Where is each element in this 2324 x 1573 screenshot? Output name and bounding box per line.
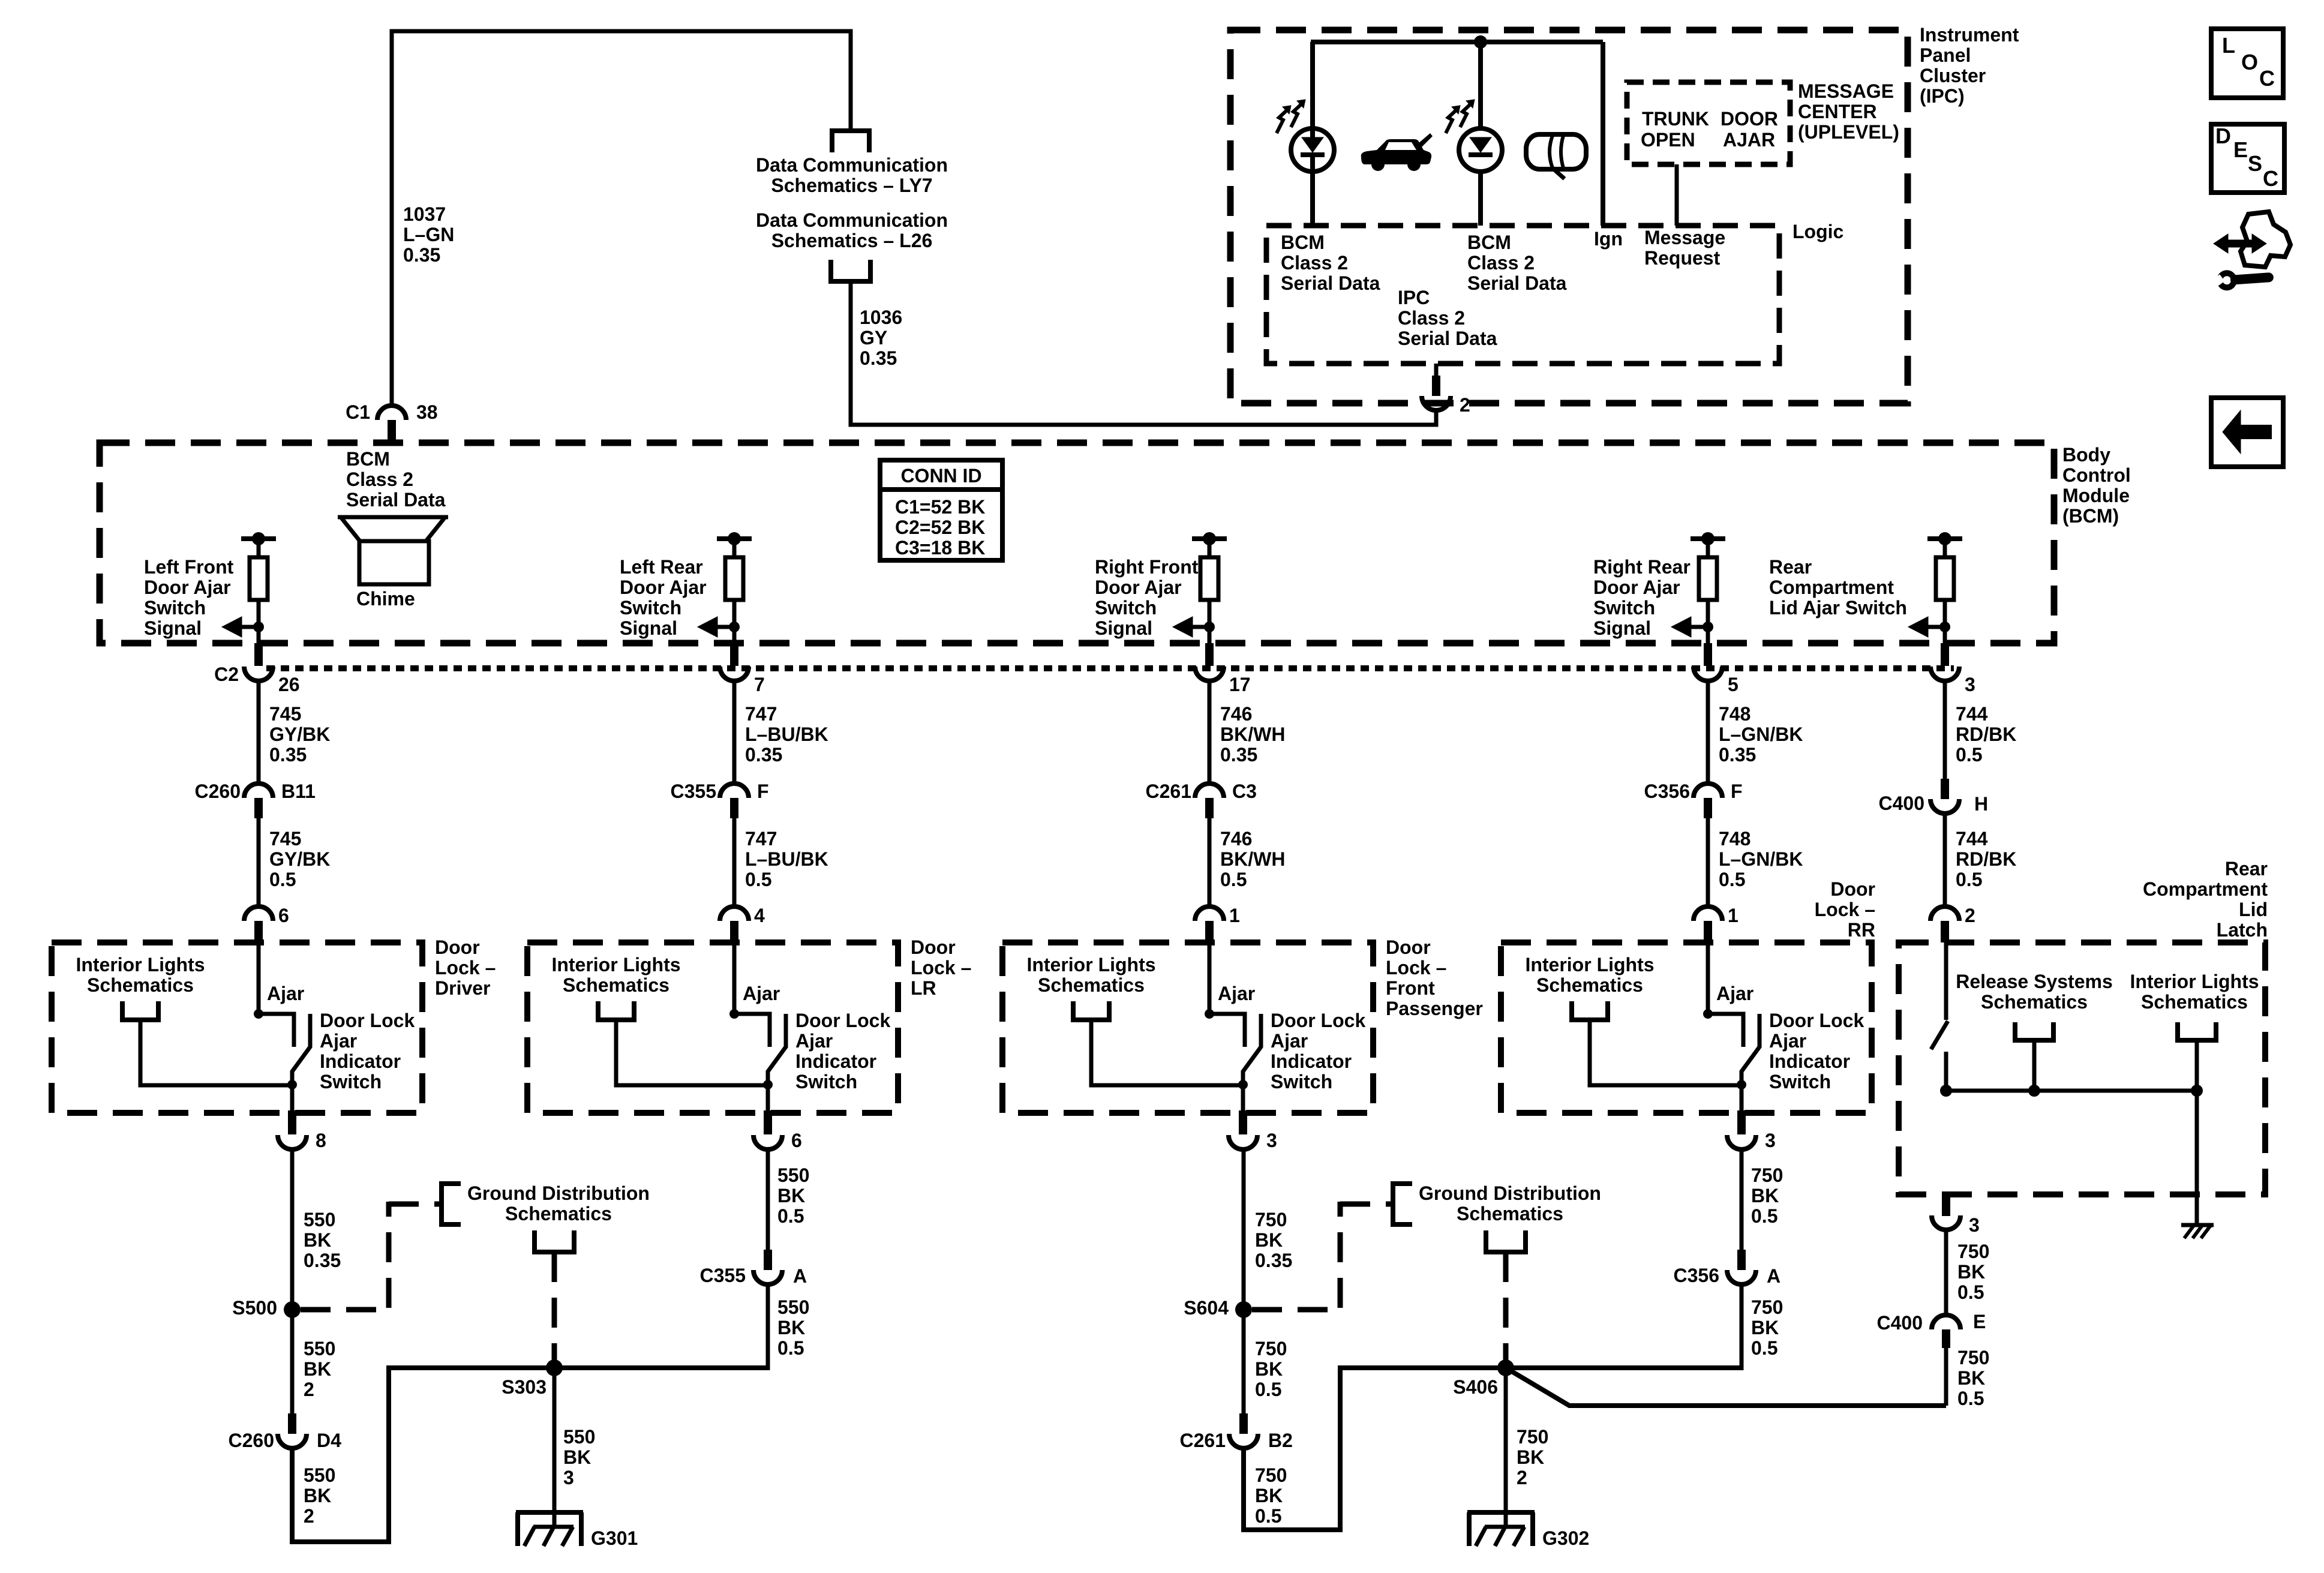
ground G302 symbol [1467, 1510, 1535, 1515]
connector terminal C2 pin 7 [730, 643, 738, 666]
LED indicator 2 (door ajar telltale) [1459, 128, 1502, 172]
label pin B2 [1268, 1430, 1293, 1451]
wire switch output [290, 1085, 295, 1113]
rear compartment lid latch dashed box [1899, 942, 2265, 1194]
label TRUNK OPEN [1642, 109, 1709, 129]
label pin 6 [278, 905, 289, 926]
label Interior Lights Schematics [551, 954, 680, 995]
wire switch output [1241, 1085, 1245, 1113]
switch pivot node [1238, 1080, 1248, 1089]
dashed wire to splice S406 [1503, 1252, 1509, 1363]
icon double-headed arrow [2223, 240, 2257, 248]
connector terminal pin 3 (latch) [1942, 1194, 1950, 1216]
wire interior lights branch [140, 1020, 292, 1085]
node Ajar [729, 1009, 739, 1019]
wire switch input [257, 942, 261, 1014]
label wire 748 L–GN/BK 0.35 [1719, 704, 1803, 765]
label Data Communication Schematics - LY7 [756, 155, 948, 196]
wire 750 BK from front passenger door lock [1242, 1148, 1246, 1413]
label pin 1 [1229, 905, 1240, 926]
label pin 8 [316, 1130, 326, 1151]
signal arrow [1928, 625, 1945, 629]
in-line connector C356 pin A [1737, 1250, 1746, 1270]
LED 2 emission arrow b [1460, 103, 1472, 127]
IPC Logic dashed box [1266, 226, 1779, 364]
switch fixed contact (Ajar) [734, 1014, 770, 1047]
latch internal bus wire [1946, 1089, 2197, 1093]
icon car with open trunk (filled) [1361, 133, 1433, 171]
wire 746 BK/WH segment (BCM side) [1208, 681, 1212, 784]
resistor (door ajar sense) [725, 557, 743, 600]
in-line connector C355 pin A [764, 1250, 772, 1270]
off-page bracket to Interior Lights Schematics (latch) [2178, 1022, 2216, 1040]
label G301 [591, 1528, 638, 1548]
node Ajar [1205, 1009, 1214, 1019]
label Body Control Module (BCM) [2062, 445, 2131, 526]
label pin 2 [1965, 905, 1975, 926]
door lock module dashed box (Passenger) [1002, 942, 1373, 1113]
connector terminal C2 pin 17 [1205, 643, 1214, 666]
node Ajar [254, 1009, 263, 1019]
label C260 [195, 781, 241, 801]
connector terminal C2 pin 3 [1941, 643, 1949, 666]
dashed wire S500 to ground distribution reference [301, 1307, 391, 1313]
label C260 (D4) [229, 1430, 275, 1451]
label Chime [356, 589, 415, 609]
wire S303 to ground G301 [553, 1368, 557, 1527]
switch pivot node [763, 1080, 773, 1089]
door lock ajar indicator switch blade [1243, 1014, 1261, 1085]
wire C400 E down to S406 branch [1944, 1348, 1948, 1406]
signal tap junction [1939, 622, 1950, 632]
connector terminal pin 6 at component [244, 906, 273, 921]
label wire 744 RD/BK 0.5 [1956, 704, 2016, 765]
label Door Lock – LR [911, 937, 971, 998]
off-page bracket to Interior Lights Schematics [122, 1001, 158, 1020]
IPC internal wire to LED 1 [1310, 42, 1315, 226]
label Right Rear Door Ajar Switch Signal [1593, 557, 1691, 638]
wire 747 L–BU/BK segment (switch side) [732, 818, 737, 906]
label wire 550 BK 0.5 (upper) [777, 1165, 809, 1226]
wire node to sensing resistor [257, 539, 261, 557]
label wire 550 BK 0.5 (lower) [777, 1297, 809, 1358]
label C400 (E) [1877, 1313, 1923, 1333]
label Interior Lights Schematics [76, 954, 205, 995]
label MESSAGE CENTER (UPLEVEL) [1798, 81, 1899, 142]
BCM branch node at x=2016 [1192, 536, 1227, 541]
icon box DESC [2211, 124, 2284, 193]
switch pivot node [287, 1080, 297, 1089]
connector terminal pin 8 [288, 1110, 296, 1134]
label Left Rear Door Ajar Switch Signal [620, 557, 707, 638]
label wire 747 L–BU/BK 0.5 [745, 828, 828, 890]
signal tap junction [1703, 622, 1713, 632]
label pin 6 [791, 1130, 802, 1151]
wire 744 RD/BK segment (BCM side) [1943, 681, 1947, 779]
splice S500 [284, 1301, 301, 1318]
node Ajar [1703, 1009, 1713, 1019]
connector terminal pin 3 [1737, 1110, 1746, 1134]
BCM branch node at x=431 [241, 536, 276, 541]
label Ajar [1716, 983, 1753, 1004]
label S604 [1184, 1298, 1229, 1318]
wire switch output [766, 1085, 770, 1113]
label wire 746 BK/WH 0.5 [1220, 828, 1285, 890]
label Interior Lights Schematics [1026, 954, 1155, 995]
node latch ground branch [2191, 1085, 2203, 1097]
wire resistor to signal tap [732, 600, 737, 643]
label Interior Lights Schematics [1525, 954, 1654, 995]
off-page reference bracket (bottom) from Data Communication Schematics [831, 260, 870, 281]
off-page bracket to Interior Lights Schematics [598, 1001, 634, 1020]
signal arrow [1193, 625, 1209, 629]
label wire 744 RD/BK 0.5 [1956, 828, 2016, 890]
wire node to sensing resistor [1208, 539, 1212, 557]
label wire 750 BK 0.5 (latch lower) [1957, 1347, 1989, 1409]
label wire 750 BK 0.5 (upper RR) [1751, 1165, 1783, 1226]
label wire 550 BK 3 [563, 1427, 595, 1488]
MESSAGE CENTER dashed box [1627, 82, 1790, 164]
label Ajar [267, 983, 304, 1004]
label Right Front Door Ajar Switch Signal [1095, 557, 1198, 638]
label Door Lock Ajar Indicator Switch [320, 1010, 415, 1092]
label pin E [1973, 1311, 1986, 1332]
door lock module dashed box (LR) [527, 942, 898, 1113]
chassis ground (latch) [2181, 1223, 2214, 1227]
signal tap junction [1204, 622, 1215, 632]
connector terminal C2 pin 26 [254, 643, 263, 666]
wire resistor to signal tap [257, 600, 261, 643]
in-line connector C261 pin B2 [1239, 1413, 1248, 1434]
label S500 [232, 1298, 277, 1318]
wire resistor to signal tap [1208, 600, 1212, 643]
wire switch input [1208, 942, 1212, 1014]
label Data Communication Schematics - L26 [756, 210, 948, 251]
label C2 [214, 664, 239, 685]
off-page bracket ground distribution (right) [1393, 1184, 1412, 1224]
resistor (door ajar sense) [1936, 557, 1954, 600]
door lock module dashed box (RR) [1501, 942, 1872, 1113]
label CONN ID [900, 466, 981, 486]
in-line connector C261 pin C3 [1195, 784, 1224, 798]
connector terminal pin 6 [764, 1110, 772, 1134]
off-page reference bracket (top) to Data Communication Schematics [832, 131, 869, 152]
door lock ajar indicator switch blade [1742, 1014, 1759, 1085]
label pin 7 [754, 674, 765, 695]
wire net 1036 from off-page bracket to IPC pin 2 [851, 281, 1436, 425]
label wire 750 BK 0.5 (lower) [1255, 1465, 1287, 1526]
icon car top view with door open (outline) [1526, 134, 1586, 179]
wire 746 BK/WH segment (switch side) [1208, 818, 1212, 906]
off-page bracket ground distribution (left) [442, 1184, 461, 1224]
label wire 1037 L-GN 0.35 [403, 204, 454, 265]
wire node to sensing resistor [1706, 539, 1710, 557]
label wire 746 BK/WH 0.35 [1220, 704, 1285, 765]
wire S406 to ground G302 [1504, 1368, 1508, 1527]
label Instrument Panel Cluster (IPC) [1920, 25, 2019, 106]
connector terminal C2 pin 5 [1704, 643, 1712, 666]
label pin A [793, 1266, 807, 1286]
LED 1 emission arrow a [1277, 109, 1288, 133]
door lock ajar indicator switch blade [768, 1014, 786, 1085]
signal arrow [717, 625, 734, 629]
label wire 745 GY/BK 0.35 [269, 704, 330, 765]
label pin 17 [1229, 674, 1251, 695]
label Message Request [1644, 227, 1725, 268]
ground G301 symbol [516, 1510, 583, 1515]
in-line connector C355 pin F [720, 784, 749, 798]
connector terminal pin 1 at component [1195, 906, 1224, 921]
label S406 [1453, 1377, 1498, 1397]
wire resistor to signal tap [1706, 600, 1710, 643]
label wire 1036 GY 0.35 [860, 307, 902, 368]
switch fixed contact (Ajar) [1209, 1014, 1245, 1047]
BCM branch node at x=3242 [1927, 536, 1962, 541]
label pin 1 [1728, 905, 1739, 926]
icon box back-arrow [2211, 398, 2283, 467]
label C356 [1644, 781, 1691, 801]
label Door Lock Ajar Indicator Switch [1271, 1010, 1365, 1092]
label pin 5 [1728, 674, 1739, 695]
BCM branch node at x=2847 [1691, 536, 1725, 541]
IPC module dashed box [1230, 30, 1908, 403]
label pin 3 [1965, 674, 1975, 695]
label Ign [1594, 229, 1623, 249]
wire 750 BK from latch pin 3 [1944, 1229, 1948, 1315]
label 38 [416, 402, 438, 422]
dotted connector line C2/C3 under BCM [266, 665, 1954, 671]
label Ground Distribution Schematics (right) [1419, 1183, 1601, 1224]
wire node to sensing resistor [732, 539, 737, 557]
switch fixed contact (Ajar) [259, 1014, 294, 1047]
label IPC Class 2 Serial Data [1398, 287, 1497, 349]
label pin C3 [1232, 781, 1257, 801]
label BCM Class 2 Serial Data (chime) [346, 449, 445, 510]
LED indicator 1 (trunk open telltale) [1291, 128, 1334, 172]
splice S303 [546, 1359, 563, 1376]
label pin F [1731, 781, 1743, 801]
wire 745 GY/BK segment (BCM side) [257, 681, 261, 784]
wire interior lights branch [1590, 1020, 1742, 1085]
off-page bracket to Release Systems Schematics [2015, 1022, 2053, 1040]
wire C355 A to S303 bus [766, 1284, 770, 1370]
junction node on IPC bus [1474, 35, 1487, 49]
IPC internal top bus wire [1311, 40, 1603, 44]
splice S406 [1497, 1359, 1514, 1376]
label Release Systems Schematics [1956, 971, 2113, 1012]
label wire 750 BK 0.5 (upper) [1255, 1338, 1287, 1400]
label Door Lock Ajar Indicator Switch [1769, 1010, 1864, 1092]
in-line connector C260 pin D4 [288, 1413, 296, 1434]
label pin A (C356) [1767, 1266, 1780, 1286]
label Left Front Door Ajar Switch Signal [144, 557, 233, 638]
in-line connector C260 pin B11 [244, 784, 273, 798]
label pin B11 [281, 781, 316, 801]
label Door Lock Ajar Indicator Switch [795, 1010, 890, 1092]
label C355 [671, 781, 717, 801]
signal tap junction [253, 622, 264, 632]
label Rear Compartment Lid Latch [2143, 858, 2268, 940]
dashed wire to splice S303 [552, 1252, 557, 1363]
icon diagnostic side view with double arrow [2241, 212, 2290, 267]
wire 745 GY/BK segment (switch side) [257, 818, 261, 906]
label wire 550 BK 0.35 [304, 1209, 341, 1271]
label pin 26 [278, 674, 300, 695]
wire C261 B2 to S406 bus [1244, 1368, 1742, 1530]
IPC internal wire to LED 2 [1478, 42, 1483, 226]
Body Control Module dashed box [100, 443, 2054, 643]
resistor (door ajar sense) [250, 557, 268, 600]
LED 1 emission arrow b [1291, 103, 1302, 127]
label wire 550 BK 2 (upper) [304, 1338, 335, 1400]
label wire 748 L–GN/BK 0.5 [1719, 828, 1803, 890]
latch switch blade (open) [1931, 1021, 1948, 1049]
label C356 (A) [1674, 1265, 1720, 1286]
label wire 550 BK 2 (lower) [304, 1465, 335, 1526]
label Interior Lights Schematics (latch) [2130, 971, 2259, 1012]
wire switch input [1706, 942, 1710, 1014]
connector terminal pin 4 at component [720, 906, 749, 921]
wire MESSAGE CENTER to Logic [1675, 164, 1679, 226]
label pin F [757, 781, 769, 801]
signal arrow [1691, 625, 1708, 629]
label BCM Class 2 Serial Data (right) [1467, 232, 1566, 293]
label Ajar [1218, 983, 1255, 1004]
off-page bracket to Interior Lights Schematics [1073, 1001, 1109, 1020]
wire IPC logic output to connector pin 2 [1434, 364, 1439, 376]
wire 750 BK from RR door lock [1740, 1148, 1744, 1250]
splice S604 [1235, 1301, 1252, 1318]
label wire 747 L–BU/BK 0.35 [745, 704, 828, 765]
label C261 [1146, 781, 1192, 801]
wire latch switch input [1944, 942, 1948, 1020]
connector terminal pin 3 [1239, 1110, 1247, 1134]
wire 744 RD/BK segment (switch side) [1943, 813, 1947, 906]
door lock ajar indicator switch blade [292, 1014, 310, 1085]
label wire 750 BK 0.5 (lower RR) [1751, 1297, 1783, 1358]
label C400 [1879, 793, 1925, 813]
connector terminal pin 2 at component [1930, 906, 1959, 921]
connector terminal IPC pin 2 [1432, 376, 1440, 396]
icon wrench [2211, 267, 2274, 292]
label S303 [502, 1377, 547, 1397]
off-page bracket under ground distribution (left) [535, 1230, 574, 1252]
LED 2 emission arrow a [1446, 109, 1457, 133]
label Door Lock – RR [1815, 879, 1875, 940]
wire 748 L–GN/BK segment (switch side) [1706, 818, 1710, 906]
label pin 3 [1266, 1130, 1277, 1151]
wire interior lights branch [1091, 1020, 1243, 1085]
label G302 [1542, 1528, 1589, 1548]
signal tap junction [729, 622, 740, 632]
label Door Lock – Driver [435, 937, 496, 998]
label wire 750 BK 0.5 (latch upper) [1957, 1241, 1989, 1302]
node release systems [2028, 1085, 2040, 1097]
wire 550 BK from driver door lock [290, 1148, 295, 1413]
BCM branch node at x=1224 [717, 536, 752, 541]
wire latch switch output [1944, 1052, 1948, 1091]
wire C356 A to S406 bus [1740, 1284, 1744, 1370]
IPC internal wire Ign [1601, 42, 1605, 226]
label C261 (B2) [1180, 1430, 1226, 1451]
icon box LOC [2211, 29, 2283, 98]
label wire 750 BK 0.35 [1255, 1209, 1292, 1271]
label wire 745 GY/BK 0.5 [269, 828, 330, 890]
wire release systems branch [2032, 1040, 2037, 1091]
label BCM Class 2 Serial Data (left) [1281, 232, 1380, 293]
wire 550 BK from LR door lock [766, 1148, 770, 1250]
in-line connector C356 pin F [1694, 784, 1722, 798]
door lock module dashed box (Driver) [52, 942, 422, 1113]
label pin 2 [1460, 395, 1470, 415]
label C355 (A) [700, 1265, 746, 1286]
resistor (door ajar sense) [1200, 557, 1218, 600]
wire switch input [732, 942, 737, 1014]
connector terminal pin 1 at component [1694, 906, 1722, 921]
wire node to sensing resistor [1943, 539, 1947, 557]
wire latch to chassis ground [2195, 1040, 2199, 1225]
wire BCM C1 pin 38 to data-communication bus (net 1037) [392, 31, 851, 406]
label wire 750 BK 2 [1517, 1427, 1548, 1488]
node latch output [1940, 1085, 1952, 1097]
label C1 [346, 402, 370, 422]
in-line connector C400 pin H [1941, 779, 1949, 799]
label Ground Distribution Schematics (left) [467, 1183, 650, 1224]
wire switch output [1740, 1085, 1744, 1113]
off-page bracket under ground distribution (right) [1486, 1230, 1526, 1252]
CONN ID table [880, 460, 1002, 560]
off-page bracket to Interior Lights Schematics [1572, 1001, 1608, 1020]
signal arrow [242, 625, 259, 629]
label Door Lock – Front Passenger [1386, 937, 1483, 1019]
label DOOR AJAR [1721, 109, 1778, 129]
wire S406 to rear compartment latch column [1506, 1368, 1946, 1406]
resistor (door ajar sense) [1699, 557, 1717, 600]
label pin 3 (latch) [1969, 1215, 1980, 1235]
wire interior lights branch [616, 1020, 768, 1085]
label pin 4 [754, 905, 765, 926]
wire 747 L–BU/BK segment (BCM side) [732, 681, 737, 784]
connector C1 pin 38 at BCM [377, 406, 406, 420]
label Ajar [743, 983, 780, 1004]
wire resistor to signal tap [1943, 600, 1947, 643]
wire C260 D4 to S303 bus [292, 1368, 768, 1542]
label pin H [1974, 794, 1988, 814]
label Logic [1792, 221, 1843, 242]
chime speaker symbol [338, 515, 448, 520]
wire 748 L–GN/BK segment (BCM side) [1706, 681, 1710, 784]
label pin D4 [317, 1430, 341, 1451]
dashed wire S604 to ground distribution reference [1252, 1307, 1343, 1313]
label pin 3 [1765, 1130, 1776, 1151]
switch pivot node [1737, 1080, 1746, 1089]
label C1=52 BK C2=52 BK C3=18 BK [895, 497, 985, 558]
switch fixed contact (Ajar) [1708, 1014, 1743, 1047]
in-line connector C400 pin E [1932, 1315, 1960, 1329]
label Rear Compartment Lid Ajar Switch [1769, 557, 1907, 618]
